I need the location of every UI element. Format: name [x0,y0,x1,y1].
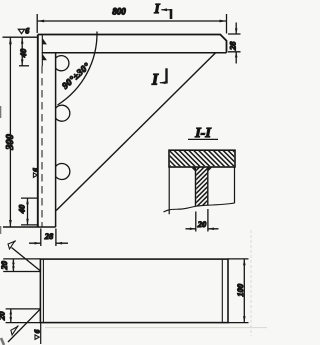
svg-text:6: 6 [31,168,40,172]
svg-text:300: 300 [5,134,16,150]
svg-text:20: 20 [0,311,7,321]
svg-text:I: I [153,1,160,16]
svg-text:90°±30°: 90°±30° [60,61,93,92]
svg-text:I: I [151,72,159,89]
svg-text:100: 100 [235,283,245,297]
svg-text:40: 40 [18,48,28,58]
svg-text:28: 28 [44,231,54,241]
svg-text:40: 40 [16,204,26,214]
svg-text:20: 20 [197,219,207,229]
svg-text:20: 20 [0,260,9,270]
svg-text:28: 28 [227,41,237,51]
svg-text:6: 6 [33,329,42,333]
svg-text:800: 800 [112,6,126,16]
svg-text:6: 6 [25,27,29,36]
